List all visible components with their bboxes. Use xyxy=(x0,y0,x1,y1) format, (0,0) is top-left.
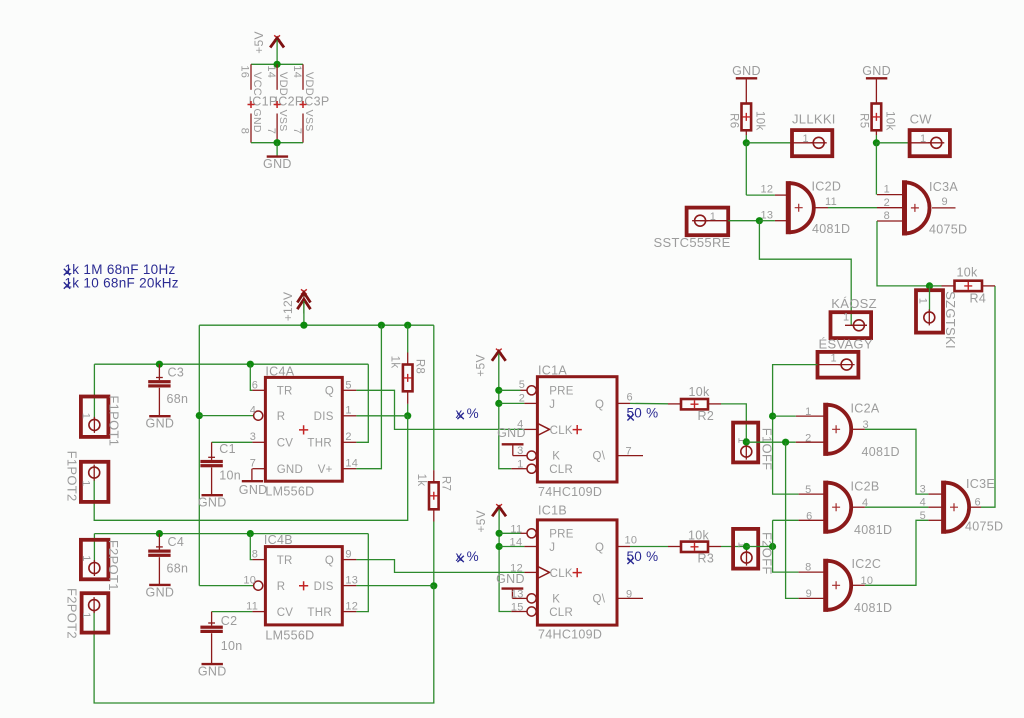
svg-text:R5: R5 xyxy=(858,113,870,128)
svg-text:C3: C3 xyxy=(168,366,185,380)
svg-text:6: 6 xyxy=(252,379,258,391)
svg-text:8: 8 xyxy=(252,549,258,561)
wire Q-A to CLK of IC1A xyxy=(356,390,524,429)
svg-text:GND: GND xyxy=(862,64,891,78)
pin 9 of IC2C xyxy=(799,597,824,599)
pin 1 of KAOSZ xyxy=(845,324,867,326)
pin 11 of IC2D (out) xyxy=(815,207,828,209)
wire to J A xyxy=(499,402,525,404)
svg-text:CLK: CLK xyxy=(550,568,573,580)
gate IC2A 4081D xyxy=(826,403,851,456)
svg-text:CLR: CLR xyxy=(549,607,573,619)
junction GND rail xyxy=(274,139,281,146)
resistor R7 xyxy=(429,482,439,509)
pin of R7 bottom xyxy=(433,509,435,521)
origin cross IC1P xyxy=(248,101,255,108)
ground (IC1B K pin) xyxy=(496,572,525,598)
svg-text:SSTC555RE: SSTC555RE xyxy=(654,235,731,250)
svg-text:C1: C1 xyxy=(219,442,236,456)
wire rail-B to THR-B xyxy=(356,534,368,612)
ground (above R6) xyxy=(732,64,761,79)
svg-text:Q: Q xyxy=(325,555,334,567)
connector ESVAGY xyxy=(818,352,859,378)
svg-text:1k: 1k xyxy=(415,474,427,487)
wire to IC2B pin 6 h xyxy=(773,519,799,521)
capacitor C4 xyxy=(158,534,160,550)
wire SSTC555RE to IC2D pin13 xyxy=(728,220,759,222)
clock wedge IC1B xyxy=(537,566,549,578)
origin cross IC4B xyxy=(299,581,308,590)
pin 12 of IC2D xyxy=(775,194,787,196)
svg-text:5: 5 xyxy=(519,379,525,391)
svg-text:+5V: +5V xyxy=(252,31,266,54)
pin R5 bottom xyxy=(875,130,877,135)
pin K 13 of IC1B xyxy=(512,597,527,599)
wire C2 to ground xyxy=(211,633,213,663)
pin 10 of IC2C (out) xyxy=(852,584,865,586)
svg-text:V+: V+ xyxy=(318,464,333,476)
wire +5V to VCC rail xyxy=(276,40,278,64)
svg-text:4075D: 4075D xyxy=(929,223,967,237)
svg-text:6: 6 xyxy=(627,391,633,403)
svg-text:5: 5 xyxy=(345,379,351,391)
svg-text:R7: R7 xyxy=(440,476,452,491)
junction VCC rail xyxy=(274,61,281,68)
pin of R8 bottom xyxy=(407,391,409,404)
pin R2 left xyxy=(668,403,681,405)
svg-text:4075D: 4075D xyxy=(965,519,1003,533)
origin cross IC1B xyxy=(573,568,582,577)
svg-text:C4: C4 xyxy=(168,535,185,549)
pin THR 2 of IC4A xyxy=(342,441,356,443)
pin 1 of F1POT2 xyxy=(89,465,100,481)
wire DIS-A to F1POT2 xyxy=(94,416,408,521)
svg-text:THR: THR xyxy=(307,607,332,619)
wire to PRE A xyxy=(499,389,521,391)
origin cross note 2 xyxy=(64,282,70,288)
svg-text:14: 14 xyxy=(510,537,523,549)
svg-text:LM556D: LM556D xyxy=(265,484,314,498)
svg-text:TR: TR xyxy=(277,555,293,567)
svg-text:LM556D: LM556D xyxy=(265,629,314,643)
svg-text:Q: Q xyxy=(325,386,334,398)
pin TR 8 of IC4B xyxy=(252,559,265,561)
svg-text:9: 9 xyxy=(345,549,351,561)
svg-text:IC3E: IC3E xyxy=(966,477,995,491)
pin 1 of F2POT2 xyxy=(89,597,100,613)
svg-text:11: 11 xyxy=(510,523,522,535)
junction +5V / J B xyxy=(496,543,503,550)
svg-text:Q\: Q\ xyxy=(593,451,606,463)
svg-text:DIS: DIS xyxy=(314,411,334,423)
pin TR 6 of IC4A xyxy=(252,389,265,391)
svg-text:4: 4 xyxy=(517,418,523,430)
svg-text:J: J xyxy=(549,399,555,411)
svg-text:KÁOSZ: KÁOSZ xyxy=(831,296,877,311)
wire to IC2C pin 8 and IC2B pin 6 xyxy=(773,520,799,572)
svg-text:GND: GND xyxy=(198,496,227,510)
wire DIS-B xyxy=(356,585,433,587)
connector F2OFF xyxy=(733,529,758,569)
wire to IC2D pin 12 xyxy=(746,194,775,196)
wire DIS-A xyxy=(356,415,407,417)
wire IC3A pin8 to R4 junction xyxy=(877,221,930,286)
wire +5V-B vertical xyxy=(499,509,511,612)
svg-text:13: 13 xyxy=(511,588,524,600)
svg-text:GND: GND xyxy=(146,417,175,431)
svg-text:GND: GND xyxy=(146,585,175,599)
ground (C1) xyxy=(198,495,227,510)
svg-text:68n: 68n xyxy=(167,562,189,576)
connector F1OFF xyxy=(733,423,758,463)
pin 4 of IC3E xyxy=(928,506,942,508)
svg-text:8: 8 xyxy=(884,210,890,222)
connector SSTC555RE xyxy=(687,208,729,236)
svg-text:1: 1 xyxy=(831,353,837,365)
junction +5V / PRE B xyxy=(496,530,503,537)
svg-text:IC1B: IC1B xyxy=(538,503,567,517)
svg-text:J: J xyxy=(549,542,555,554)
wire net TR-A rail xyxy=(94,363,368,365)
wire Q-B to CLK of IC1B xyxy=(356,560,524,573)
junction +12V rail / R8 xyxy=(404,322,411,329)
pin VSS 7 of IC2P xyxy=(276,114,278,143)
wire rail-A to TR pin xyxy=(250,364,252,390)
pin DIS 13 of IC4B xyxy=(342,585,356,587)
wire DIS-B to F2POT2 xyxy=(94,586,434,703)
wire rail-B to F2POT1 xyxy=(93,534,95,563)
resistor R8 xyxy=(403,365,413,392)
svg-text:4081D: 4081D xyxy=(854,523,892,537)
svg-text:IC2D: IC2D xyxy=(812,180,842,194)
pin 8 of IC2C xyxy=(799,571,824,573)
svg-text:12: 12 xyxy=(345,601,358,613)
svg-text:JLLKKI: JLLKKI xyxy=(792,112,836,127)
ground (C2) xyxy=(198,664,227,679)
supply +5V (IC1A) xyxy=(492,349,506,361)
svg-text:CLK: CLK xyxy=(550,425,573,437)
wire +12V right vertical to R7 xyxy=(433,325,435,470)
clock wedge IC1A xyxy=(537,423,549,435)
inversion bubble CLR IC1B xyxy=(527,607,536,616)
wire +12V rail xyxy=(199,324,433,326)
wire IC2D out to IC3A pin 2 xyxy=(828,207,877,209)
svg-text:12: 12 xyxy=(760,184,773,196)
pin Q 10 of IC1B xyxy=(617,546,630,548)
supply +12V xyxy=(297,289,310,313)
svg-text:10k: 10k xyxy=(957,265,979,279)
wire R5 to junction xyxy=(875,135,877,143)
svg-text:1k: 1k xyxy=(388,356,400,369)
svg-text:F1POT2: F1POT2 xyxy=(65,451,80,502)
svg-text:+12V: +12V xyxy=(281,292,295,322)
wire +12V left vertical to reset pins xyxy=(198,325,200,585)
svg-text:10k: 10k xyxy=(754,111,766,130)
wire net TR-B rail xyxy=(94,533,368,535)
pin CV 11 of IC4B xyxy=(252,611,265,613)
svg-text:IC3A: IC3A xyxy=(929,180,958,194)
svg-text:TR: TR xyxy=(277,386,293,398)
pin Qbar 7 of IC1A xyxy=(617,455,643,457)
svg-text:12: 12 xyxy=(510,562,523,574)
wire junction to IC2D pin 12 xyxy=(745,143,747,195)
gate IC2B 4081D xyxy=(826,481,851,534)
pin 1 of ESVAGY xyxy=(818,364,841,366)
junction DIS-A net xyxy=(404,412,411,419)
pin GND 7 of IC4A xyxy=(252,468,265,470)
svg-text:1: 1 xyxy=(80,413,92,419)
svg-text:8: 8 xyxy=(239,128,251,134)
origin cross 50 % A xyxy=(627,414,633,420)
pin R3 right xyxy=(708,546,721,548)
pin 1 of F2OFF xyxy=(741,550,752,566)
supply +5V (IC1B) xyxy=(492,504,506,516)
pin 6 of IC3E (out) xyxy=(970,506,981,508)
wire R2 to F1OFF xyxy=(721,404,746,442)
svg-text:4081D: 4081D xyxy=(862,445,900,459)
svg-text:10: 10 xyxy=(243,574,256,586)
svg-text:K: K xyxy=(552,451,560,463)
svg-text:68n: 68n xyxy=(167,392,189,406)
svg-text:R6: R6 xyxy=(728,113,740,128)
pin 6 of IC2B xyxy=(799,519,824,521)
connector KAOSZ xyxy=(831,312,872,338)
svg-text:Q: Q xyxy=(595,399,604,411)
svg-text:IC4B: IC4B xyxy=(264,533,293,547)
pin of R8 top xyxy=(407,353,409,365)
pin 1 of F1OFF xyxy=(741,444,752,460)
wire +12V to R8 xyxy=(407,325,409,352)
pin CV 3 of IC4A xyxy=(252,441,265,443)
pin R4 right xyxy=(982,285,995,287)
pin VSS 7 of IC3P xyxy=(302,114,304,143)
wire R6 to junction xyxy=(745,135,747,143)
origin cross IC4A xyxy=(299,425,308,434)
svg-text:1: 1 xyxy=(843,311,849,323)
svg-text:1: 1 xyxy=(884,184,890,196)
inversion bubble R pin IC4A xyxy=(254,411,263,420)
pin CLR 1 of IC1A xyxy=(511,468,527,470)
pin K 3 of IC1A xyxy=(513,455,527,457)
junction ESVAGY / IC2A pin1 xyxy=(769,413,776,420)
svg-text:+5V: +5V xyxy=(474,510,488,533)
pin V+ 14 of IC4A xyxy=(342,468,356,470)
connector F1POT2 xyxy=(81,462,109,502)
wire ESVAGY to IC2B pin5 xyxy=(773,365,818,495)
pin 1 of F1POT1 xyxy=(89,417,100,433)
svg-text:13: 13 xyxy=(345,574,358,586)
junction F2OFF pin xyxy=(743,543,750,550)
wire to J B xyxy=(499,546,524,548)
connector F1POT1 xyxy=(81,397,109,437)
supply +5V (power block) xyxy=(270,35,284,47)
svg-text:CV: CV xyxy=(277,438,294,450)
svg-text:IC2C: IC2C xyxy=(852,557,882,571)
wire F1OFF to IC2A pin 2 xyxy=(746,441,796,443)
svg-text:10: 10 xyxy=(625,535,638,547)
resistor R5 xyxy=(872,104,882,131)
pin Q 6 of IC1A xyxy=(617,402,630,404)
svg-text:1: 1 xyxy=(517,458,523,470)
svg-text:7: 7 xyxy=(291,128,303,134)
svg-text:GND: GND xyxy=(277,464,303,476)
wire to GND symbol xyxy=(276,143,278,156)
resistor R4 xyxy=(955,281,983,291)
pin 3 of IC2A (out) xyxy=(852,428,865,430)
pin CLR 15 of IC1B xyxy=(511,611,527,613)
svg-text:R3: R3 xyxy=(698,552,715,566)
svg-text:R: R xyxy=(277,581,286,593)
svg-text:IC2P: IC2P xyxy=(275,95,304,109)
junction R4/SZGTSKI xyxy=(926,282,933,289)
capacitor C2 xyxy=(211,612,213,626)
wire IC2B out to IC3E pin4 xyxy=(865,506,929,508)
wire rail-B to TR-B pin xyxy=(250,534,252,560)
svg-text:C2: C2 xyxy=(221,614,238,628)
pin 1 of IC2A xyxy=(796,415,824,417)
pin VDD 14 of IC2P xyxy=(276,64,278,90)
ground (C3) xyxy=(146,416,175,431)
origin cross x % B xyxy=(457,556,463,562)
pin DIS 1 of IC4A xyxy=(342,415,356,417)
svg-text:F2POT1: F2POT1 xyxy=(106,540,121,591)
svg-text:Q: Q xyxy=(595,542,604,554)
pin CLK 12 of IC1B xyxy=(524,571,537,573)
inversion bubble PRE IC1A xyxy=(527,386,536,395)
svg-text:CV: CV xyxy=(277,607,294,619)
flip-flop IC1A 74HC109D xyxy=(537,377,617,482)
svg-text:GND: GND xyxy=(198,665,227,679)
wire CV-B to C2 xyxy=(212,611,253,613)
svg-text:1: 1 xyxy=(803,133,809,145)
svg-text:7: 7 xyxy=(250,458,256,470)
svg-text:GND: GND xyxy=(239,483,268,497)
origin cross IC1A xyxy=(573,425,582,434)
pin 4 of IC2B (out) xyxy=(852,506,865,508)
svg-text:1: 1 xyxy=(345,404,351,416)
svg-text:2: 2 xyxy=(519,392,525,404)
svg-text:11: 11 xyxy=(825,196,837,208)
ground (power block) xyxy=(263,157,292,172)
svg-text:GND: GND xyxy=(732,64,761,78)
svg-text:2: 2 xyxy=(345,431,351,443)
wire rail-A to F1POT1 xyxy=(93,364,95,419)
ground (C4) xyxy=(146,585,175,600)
svg-text:R4: R4 xyxy=(970,292,987,306)
pin 2 of IC2A xyxy=(796,441,824,443)
pin 8 of IC3A xyxy=(877,220,903,222)
svg-text:74HC109D: 74HC109D xyxy=(538,485,602,499)
connector JLLKKI xyxy=(792,130,832,156)
inversion bubble CLR IC1A xyxy=(527,464,536,473)
junction rail-A / C3 xyxy=(156,361,163,368)
svg-text:1: 1 xyxy=(80,480,92,486)
svg-text:14: 14 xyxy=(265,65,277,78)
wire R7 to DIS-B junction xyxy=(433,522,435,586)
capacitor C3 xyxy=(158,364,160,380)
svg-text:1: 1 xyxy=(920,133,926,145)
junction +5V / PRE A xyxy=(495,387,502,394)
connector F2POT2 xyxy=(82,593,109,632)
pin 3 of IC3E xyxy=(928,493,942,495)
op-amp/timer IC4A LM556D xyxy=(265,377,342,481)
wire to IC2C pin 9 xyxy=(786,442,799,598)
junction rail-A / TR xyxy=(247,361,254,368)
resistor R2 xyxy=(681,399,708,409)
ground (above R5) xyxy=(862,64,891,79)
svg-text:10n: 10n xyxy=(221,639,243,653)
svg-text:4081D: 4081D xyxy=(812,222,850,236)
origin cross IC3P xyxy=(300,101,307,108)
pin 5 of IC3E xyxy=(928,519,942,521)
svg-text:10k: 10k xyxy=(884,111,896,130)
wire Q-B to R3 xyxy=(630,546,668,548)
svg-text:PRE: PRE xyxy=(549,529,574,541)
junction pin6/pin8 net xyxy=(769,543,776,550)
wire IC2C out to IC3E pin5 xyxy=(865,520,929,585)
wire CV to C1 xyxy=(212,441,253,443)
svg-text:VSS: VSS xyxy=(277,110,289,132)
inversion bubble K IC1B xyxy=(527,594,536,603)
svg-text:VCC: VCC xyxy=(251,72,263,96)
pin 1 of JLLKKI xyxy=(792,142,813,144)
pin R2 right xyxy=(708,403,721,405)
svg-text:14: 14 xyxy=(291,65,303,78)
svg-text:DIS: DIS xyxy=(314,581,334,593)
pin 1 of SSTC555RE xyxy=(700,220,728,222)
wire C4 to ground xyxy=(158,557,160,584)
svg-text:CW: CW xyxy=(910,112,933,127)
pin 1 of CW xyxy=(910,142,931,144)
junction +5V / J A xyxy=(495,400,502,407)
wire VCC/VDD top rail xyxy=(251,63,303,65)
origin cross IC2P xyxy=(274,101,281,108)
pin THR 12 of IC4B xyxy=(342,611,356,613)
junction rail-B / C4 xyxy=(156,530,163,537)
svg-text:9: 9 xyxy=(942,196,948,208)
pin Q 5 of IC4A xyxy=(342,389,356,391)
pin 1 of IC3A xyxy=(877,194,903,196)
pin 13 of IC2D xyxy=(775,220,787,222)
junction rail-B / TR-B xyxy=(247,530,254,537)
svg-text:VSS: VSS xyxy=(303,110,315,132)
pin Q 9 of IC4B xyxy=(342,559,356,561)
wire IC2A out to IC3E pin3 xyxy=(865,429,929,494)
flip-flop IC1B 74HC109D xyxy=(537,520,617,625)
svg-text:74HC109D: 74HC109D xyxy=(538,628,602,642)
wire R3 to F2OFF xyxy=(721,546,747,548)
wire F2OFF to junction xyxy=(747,546,773,548)
svg-text:IC4A: IC4A xyxy=(265,364,294,378)
junction SSTC555RE / KAOSZ xyxy=(756,217,763,224)
connector F2POT1 xyxy=(81,540,109,580)
wire R8 to DIS junction xyxy=(407,404,409,416)
svg-text:4: 4 xyxy=(250,404,256,416)
junction +12V rail / supply xyxy=(300,322,307,329)
wire +12V to R pin of IC4A xyxy=(199,415,253,417)
svg-text:3: 3 xyxy=(517,445,523,457)
svg-text:+5V: +5V xyxy=(473,354,487,377)
svg-text:CLR: CLR xyxy=(549,464,573,476)
pin VDD 14 of IC3P xyxy=(302,64,304,90)
resistor R3 xyxy=(681,542,708,552)
connector SZGTSKI xyxy=(916,290,943,332)
junction DIS-B net xyxy=(430,582,437,589)
gate IC2C 4081D xyxy=(826,559,851,612)
svg-text:R2: R2 xyxy=(698,409,715,423)
wire +12V to V+ xyxy=(356,325,381,469)
svg-text:F1POT1: F1POT1 xyxy=(106,395,121,446)
